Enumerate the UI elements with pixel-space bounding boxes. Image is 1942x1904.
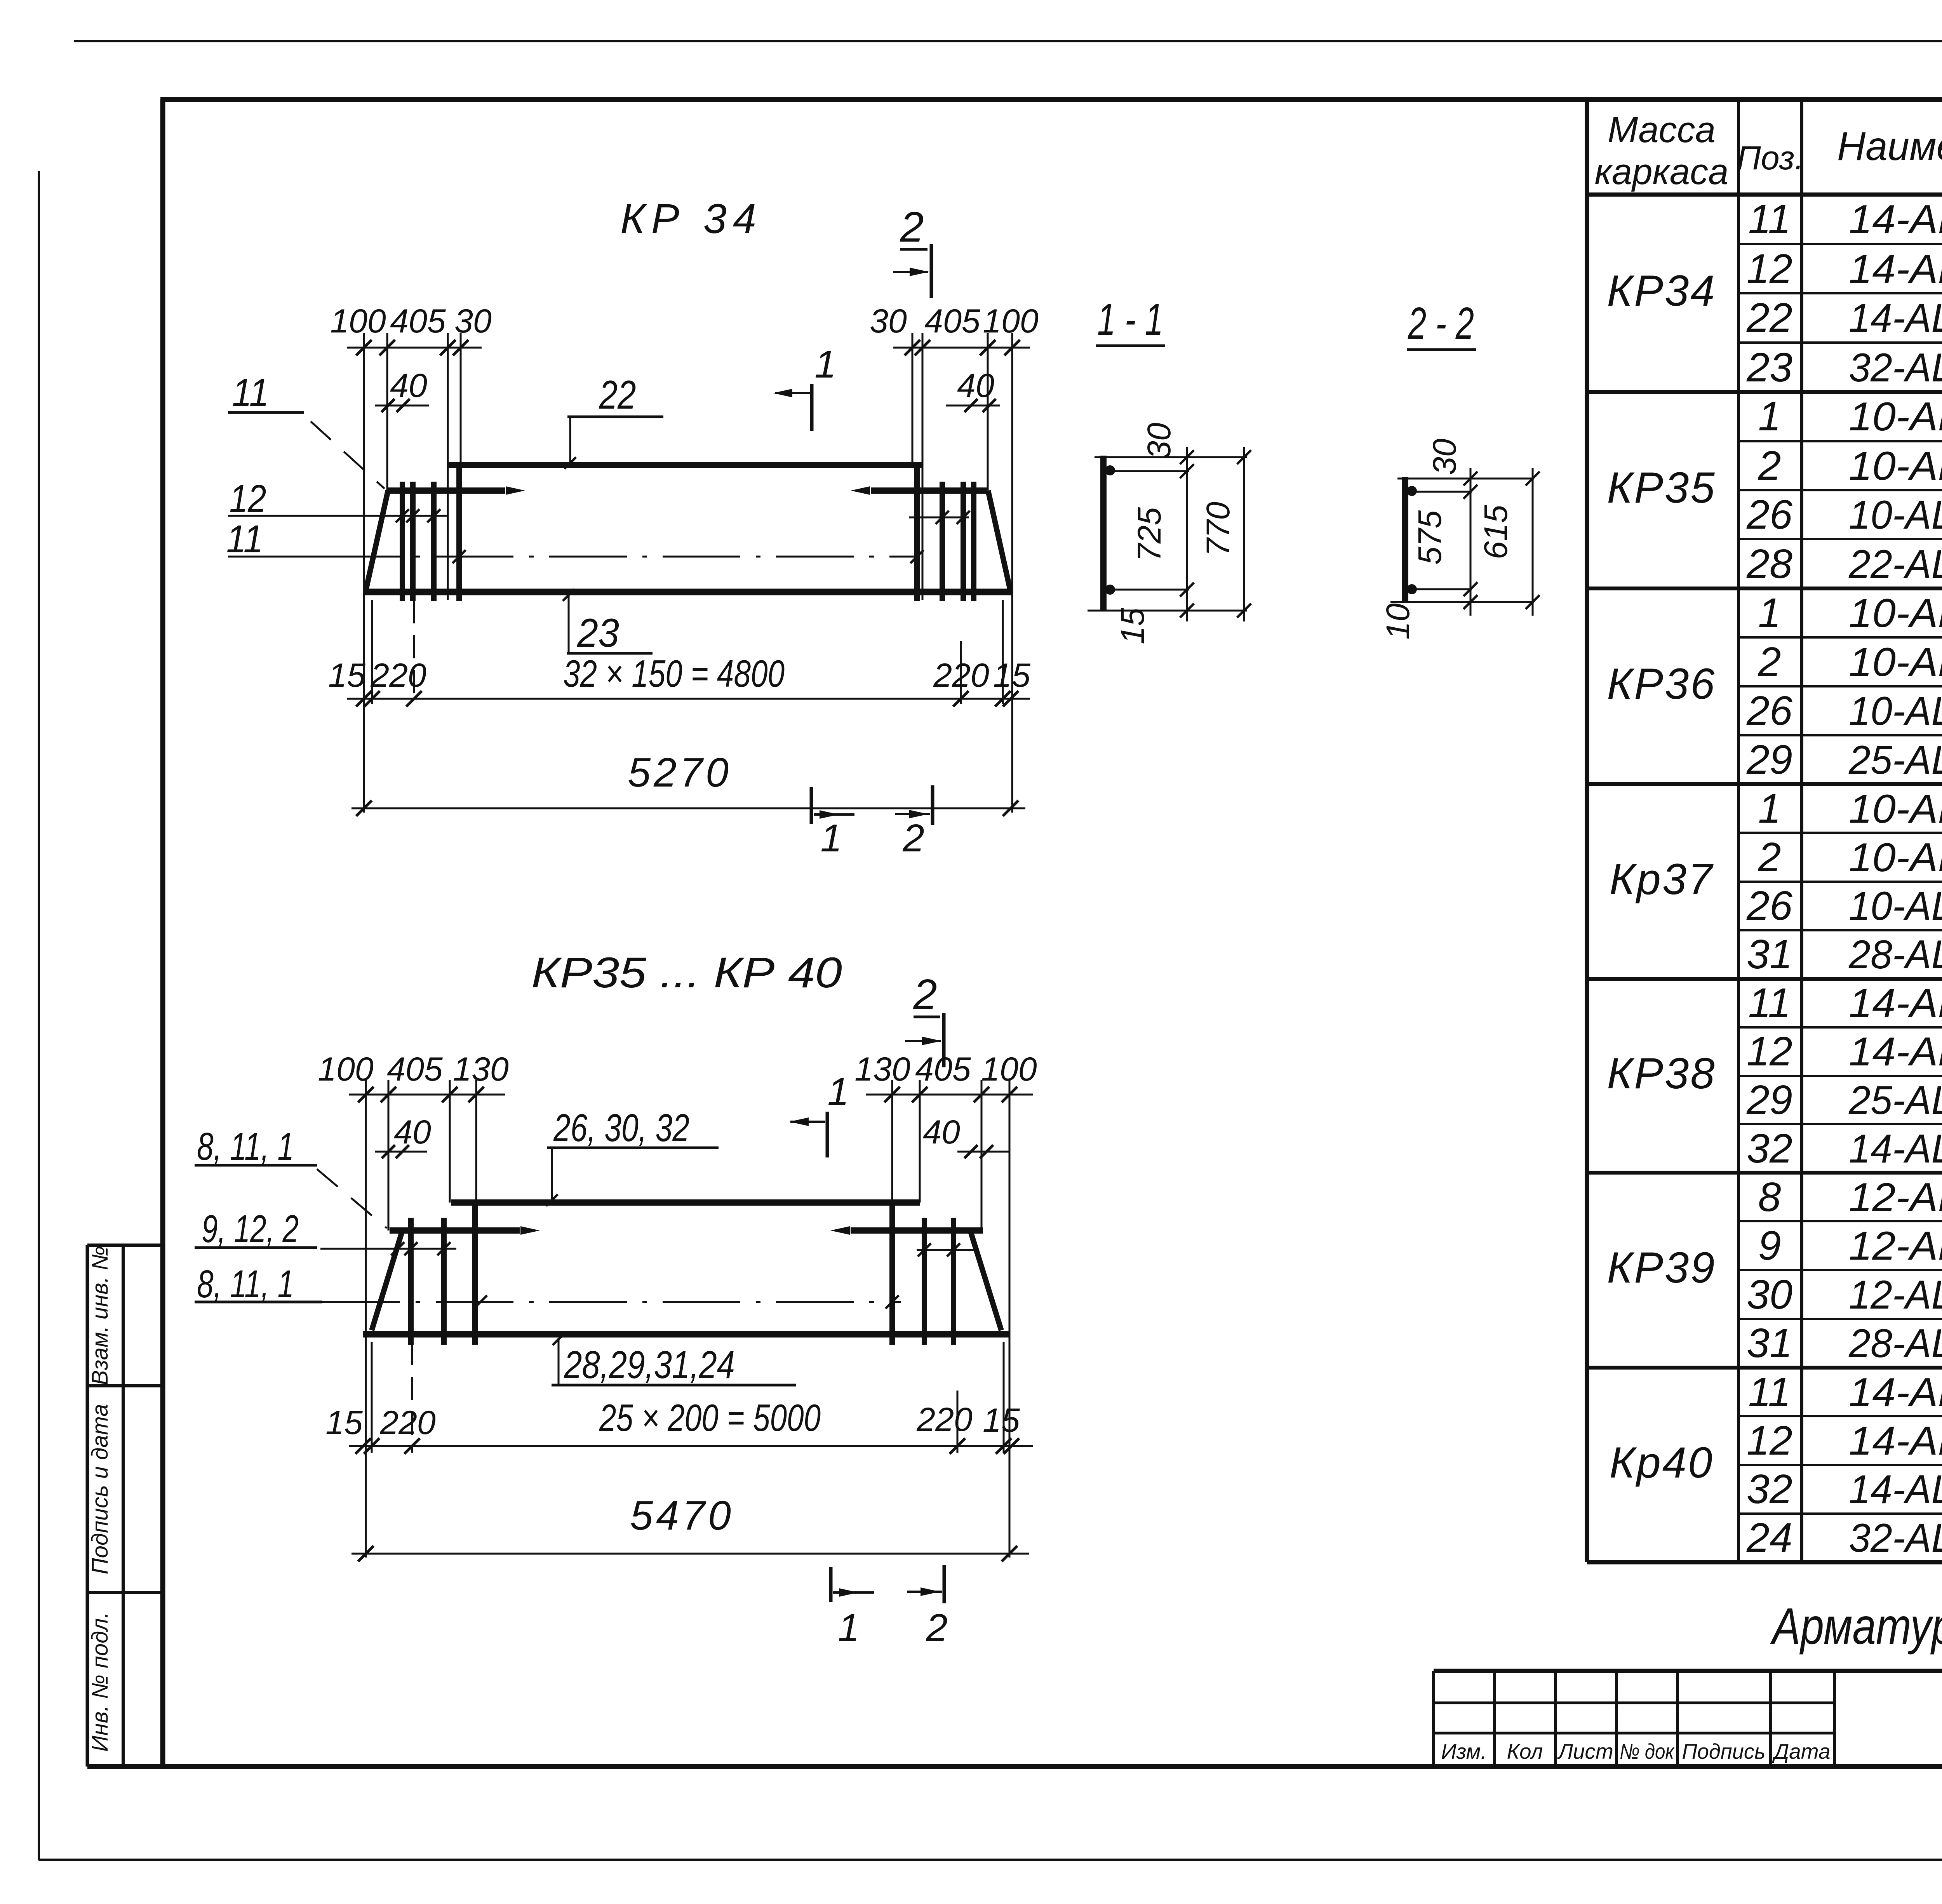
svg-text:100: 100 <box>318 1051 374 1088</box>
svg-text:Дата: Дата <box>1771 1739 1830 1763</box>
svg-text:12-АШ , ℓ = 4460: 12-АШ , ℓ = 4460 <box>1849 1272 1942 1317</box>
svg-text:1 - 1: 1 - 1 <box>1097 294 1163 345</box>
svg-text:КР 34: КР 34 <box>620 195 762 242</box>
svg-text:Наименование: Наименование <box>1837 124 1942 169</box>
svg-text:10-АШ , ℓ = 615: 10-АШ , ℓ = 615 <box>1849 640 1942 685</box>
svg-text:2: 2 <box>913 971 937 1018</box>
svg-text:5270: 5270 <box>628 750 732 795</box>
svg-text:1: 1 <box>1758 393 1781 439</box>
svg-text:22: 22 <box>1746 295 1792 341</box>
svg-text:24: 24 <box>1746 1515 1792 1561</box>
svg-text:15: 15 <box>1114 608 1151 644</box>
svg-text:22-АШ , ℓ = 5470: 22-АШ , ℓ = 5470 <box>1848 542 1942 587</box>
svg-text:40: 40 <box>394 1114 431 1151</box>
svg-text:1: 1 <box>1758 590 1781 636</box>
svg-text:12: 12 <box>1747 1418 1792 1464</box>
svg-text:2: 2 <box>900 203 924 251</box>
svg-text:25-АШ , ℓ = 5470: 25-АШ , ℓ = 5470 <box>1848 1078 1942 1123</box>
svg-text:12: 12 <box>1747 1029 1792 1074</box>
svg-text:Кр37: Кр37 <box>1610 855 1714 903</box>
svg-text:10-АШ , ℓ = 615: 10-АШ , ℓ = 615 <box>1849 444 1942 489</box>
svg-text:30: 30 <box>1141 423 1177 459</box>
svg-text:10-АШ , ℓ = 4460: 10-АШ , ℓ = 4460 <box>1849 884 1942 929</box>
svg-text:26: 26 <box>1746 883 1792 929</box>
svg-text:11: 11 <box>1748 980 1791 1026</box>
svg-text:14-АШ , ℓ = 770: 14-АШ , ℓ = 770 <box>1849 197 1942 242</box>
svg-text:28-АШ , ℓ = 5470: 28-АШ , ℓ = 5470 <box>1848 932 1942 977</box>
svg-text:130: 130 <box>854 1051 910 1088</box>
svg-text:Взам. инв. №: Взам. инв. № <box>87 1246 113 1385</box>
svg-text:32: 32 <box>1747 1126 1792 1171</box>
svg-text:30: 30 <box>1426 439 1463 475</box>
svg-text:Поз.: Поз. <box>1737 139 1804 177</box>
svg-text:КР35 ... КР 40: КР35 ... КР 40 <box>531 949 842 997</box>
svg-text:Лист: Лист <box>1557 1739 1613 1763</box>
svg-text:14-АШ , ℓ = 770: 14-АШ , ℓ = 770 <box>1849 1370 1942 1415</box>
svg-text:КР35: КР35 <box>1607 463 1716 512</box>
svg-text:Изм.: Изм. <box>1441 1739 1486 1763</box>
svg-text:14-АШ , ℓ = 615: 14-АШ , ℓ = 615 <box>1849 1029 1942 1074</box>
svg-text:10-АШ , ℓ = 4460: 10-АШ , ℓ = 4460 <box>1849 689 1942 734</box>
svg-text:220: 220 <box>933 657 989 694</box>
svg-text:11: 11 <box>1748 1369 1791 1415</box>
svg-text:30: 30 <box>1747 1272 1792 1317</box>
svg-text:26, 30, 32: 26, 30, 32 <box>553 1106 689 1150</box>
svg-text:14-АШ , ℓ = 770: 14-АШ , ℓ = 770 <box>1849 981 1942 1026</box>
svg-text:220: 220 <box>916 1401 973 1438</box>
svg-text:Инв. № подл.: Инв. № подл. <box>87 1612 113 1752</box>
svg-text:5470: 5470 <box>630 1493 734 1539</box>
svg-text:10: 10 <box>1380 603 1416 640</box>
svg-text:8, 11, 1: 8, 11, 1 <box>197 1125 294 1168</box>
svg-text:15: 15 <box>993 657 1031 694</box>
svg-text:405: 405 <box>390 303 446 340</box>
svg-text:26: 26 <box>1746 492 1792 538</box>
svg-text:Масса: Масса <box>1608 109 1716 150</box>
svg-text:28: 28 <box>1746 541 1792 587</box>
svg-text:14-АШ , ℓ = 4460: 14-АШ , ℓ = 4460 <box>1849 1467 1942 1512</box>
svg-text:10-АШ , ℓ = 615: 10-АШ , ℓ = 615 <box>1849 835 1942 880</box>
svg-text:9: 9 <box>1758 1223 1781 1269</box>
svg-text:23: 23 <box>577 611 619 656</box>
svg-text:Кр40: Кр40 <box>1610 1438 1714 1487</box>
svg-text:32-АШ , ℓ = 5270: 32-АШ , ℓ = 5270 <box>1849 345 1942 390</box>
svg-text:40: 40 <box>390 367 427 404</box>
svg-text:220: 220 <box>379 1404 436 1441</box>
svg-text:32-АШ , ℓ = 5470: 32-АШ , ℓ = 5470 <box>1849 1516 1942 1561</box>
svg-text:30: 30 <box>870 303 907 340</box>
svg-text:40: 40 <box>957 367 994 404</box>
svg-text:КР38: КР38 <box>1607 1049 1716 1098</box>
svg-text:11: 11 <box>1748 196 1791 242</box>
svg-text:32 × 150 = 4800: 32 × 150 = 4800 <box>563 652 785 695</box>
svg-text:28,29,31,24: 28,29,31,24 <box>564 1343 735 1387</box>
svg-text:2 - 2: 2 - 2 <box>1408 298 1474 348</box>
svg-text:2: 2 <box>1758 443 1781 489</box>
svg-text:29: 29 <box>1746 737 1792 783</box>
svg-text:1: 1 <box>814 343 836 386</box>
svg-text:2: 2 <box>926 1606 948 1650</box>
svg-text:25-АШ , ℓ = 5470: 25-АШ , ℓ = 5470 <box>1848 738 1942 783</box>
svg-text:1: 1 <box>838 1606 860 1650</box>
svg-text:2: 2 <box>1758 639 1781 685</box>
svg-text:31: 31 <box>1747 931 1792 977</box>
svg-text:10-АШ , ℓ = 4460: 10-АШ , ℓ = 4460 <box>1849 493 1942 538</box>
svg-text:12-АШ , ℓ = 770: 12-АШ , ℓ = 770 <box>1849 1175 1942 1220</box>
svg-text:1: 1 <box>827 1070 849 1114</box>
svg-text:130: 130 <box>453 1051 509 1088</box>
svg-text:КР39: КР39 <box>1607 1243 1716 1292</box>
svg-text:14-АШ , ℓ = 615: 14-АШ , ℓ = 615 <box>1849 1418 1942 1464</box>
svg-text:12-АШ , ℓ = 615: 12-АШ , ℓ = 615 <box>1849 1224 1942 1269</box>
svg-text:405: 405 <box>915 1051 971 1088</box>
svg-text:615: 615 <box>1477 505 1514 559</box>
svg-text:Арматура класса А-Ш по ГОС: Арматура класса А-Ш по ГОСТ 5781-82 <box>1770 1598 1942 1655</box>
svg-text:23: 23 <box>1746 345 1792 390</box>
svg-text:770: 770 <box>1200 502 1236 556</box>
svg-text:15: 15 <box>325 1404 363 1441</box>
svg-text:100: 100 <box>983 303 1039 340</box>
svg-text:10-АШ , ℓ = 770: 10-АШ , ℓ = 770 <box>1849 394 1942 439</box>
svg-text:725: 725 <box>1131 507 1168 562</box>
svg-text:32: 32 <box>1747 1466 1792 1512</box>
svg-text:30: 30 <box>454 303 492 340</box>
svg-text:14-АШ , ℓ = 4460: 14-АШ , ℓ = 4460 <box>1849 1126 1942 1171</box>
svg-text:2: 2 <box>902 816 924 860</box>
svg-text:2: 2 <box>1758 834 1781 880</box>
svg-text:Подпись: Подпись <box>1682 1739 1766 1763</box>
svg-text:12: 12 <box>230 477 266 520</box>
svg-text:15: 15 <box>328 657 366 694</box>
svg-text:28-АШ , ℓ = 5470: 28-АШ , ℓ = 5470 <box>1848 1321 1942 1366</box>
svg-text:405: 405 <box>387 1051 443 1088</box>
svg-text:25 × 200 = 5000: 25 × 200 = 5000 <box>599 1396 821 1439</box>
svg-text:14-АШ , ℓ = 615: 14-АШ , ℓ = 615 <box>1849 247 1942 292</box>
svg-text:12: 12 <box>1747 246 1792 292</box>
svg-text:220: 220 <box>370 657 426 694</box>
svg-text:15: 15 <box>983 1402 1020 1439</box>
svg-text:11: 11 <box>226 517 263 561</box>
svg-text:10-АШ , ℓ = 770: 10-АШ , ℓ = 770 <box>1849 591 1942 636</box>
svg-text:100: 100 <box>330 303 386 340</box>
svg-text:10-АШ , ℓ = 770: 10-АШ , ℓ = 770 <box>1849 787 1942 832</box>
svg-text:26: 26 <box>1746 688 1792 734</box>
svg-text:22: 22 <box>599 372 636 418</box>
svg-text:1: 1 <box>1758 786 1781 832</box>
svg-text:575: 575 <box>1411 510 1448 565</box>
svg-text:Подпись и дата: Подпись и дата <box>87 1404 113 1575</box>
svg-text:11: 11 <box>232 371 269 414</box>
svg-text:31: 31 <box>1747 1320 1792 1366</box>
svg-text:КР34: КР34 <box>1607 266 1716 315</box>
svg-text:КР36: КР36 <box>1607 660 1716 708</box>
svg-text:14-АШ , ℓ = 4260: 14-АШ , ℓ = 4260 <box>1849 296 1942 341</box>
svg-text:405: 405 <box>924 303 981 340</box>
svg-text:1: 1 <box>820 816 842 860</box>
svg-text:каркаса: каркаса <box>1595 151 1729 192</box>
svg-text:8: 8 <box>1758 1174 1781 1220</box>
svg-text:100: 100 <box>981 1051 1037 1088</box>
svg-text:29: 29 <box>1746 1077 1792 1123</box>
svg-text:40: 40 <box>923 1114 960 1151</box>
svg-text:8, 11, 1: 8, 11, 1 <box>197 1262 294 1306</box>
svg-text:Кол: Кол <box>1507 1739 1543 1763</box>
svg-text:№ док: № док <box>1620 1739 1675 1763</box>
svg-text:9, 12, 2: 9, 12, 2 <box>202 1207 299 1251</box>
